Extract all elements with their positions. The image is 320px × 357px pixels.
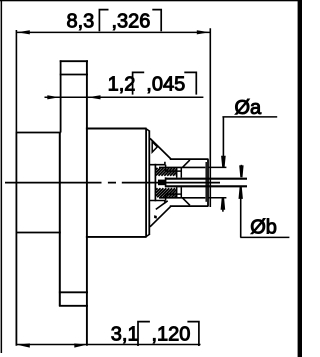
bottom leg bottom edge — [59, 305, 88, 307]
dia a leader underline — [222, 116, 277, 118]
frame left border — [1, 0, 2, 353]
insulator hatch upper — [156, 168, 177, 176]
interface front inner face — [205, 162, 207, 202]
frame top border — [0, 0, 302, 1]
body right edge — [145, 129, 147, 237]
dia a arrow bottom stub — [222, 209, 224, 212]
cone wall section triangle lower — [154, 215, 157, 218]
bore chamfer bottom — [182, 198, 190, 206]
top leg tube top edge — [60, 60, 88, 62]
interface front face — [207, 159, 209, 206]
dim 8,3 extension line left — [15, 30, 17, 132]
dim 3,1 dimension line — [16, 344, 200, 346]
dim 8,3 arrow right — [197, 30, 210, 34]
dim 8,3 arrow left — [17, 30, 30, 34]
dia a arrow bottom — [221, 198, 226, 210]
svg-text:1,2: 1,2 — [108, 74, 136, 96]
cone wall section triangle upper — [152, 142, 157, 153]
dia b arrow bottom — [239, 187, 243, 199]
center pin left cap — [165, 177, 167, 187]
flange left edge — [15, 132, 17, 346]
insulator hatch lower — [156, 188, 177, 197]
svg-text:8,3: 8,3 — [67, 10, 95, 32]
body chamfer top right — [146, 129, 150, 132]
interface bottom edge — [170, 205, 209, 207]
svg-text:Øb: Øb — [250, 216, 277, 238]
socket wall v4 top — [180, 167, 182, 177]
socket sleeve left wall bottom — [165, 194, 167, 201]
dim 3,1 inch bracket right — [187, 322, 199, 346]
interface top edge — [170, 158, 209, 160]
top leg tube right edge — [86, 60, 88, 345]
svg-text:Øa: Øa — [235, 97, 263, 119]
dim 1,2 inch bracket left — [133, 72, 145, 94]
flange right edge — [59, 133, 61, 306]
socket wall v3 top — [176, 167, 178, 177]
socket sleeve bottom line — [165, 193, 181, 195]
dia b arrow top — [239, 165, 243, 177]
socket wall v3 bottom — [176, 187, 178, 198]
cone top edge — [150, 138, 171, 159]
bore chamfer top — [182, 160, 190, 168]
frame right border — [298, 0, 302, 357]
center pin bottom edge — [165, 185, 247, 187]
svg-text:3,1: 3,1 — [111, 323, 139, 345]
socket bottom line — [150, 201, 165, 204]
dim 1,2 arrow right — [88, 95, 101, 99]
bore top edge — [159, 166, 205, 168]
center pin top edge — [165, 178, 247, 180]
dim 3,1 arrow left — [17, 343, 30, 347]
svg-text:,120: ,120 — [152, 323, 191, 345]
dia a extension line bottom — [209, 197, 227, 199]
socket left wall — [154, 164, 156, 202]
inner cone edge lower — [156, 201, 168, 210]
dia b leader underline — [240, 236, 289, 238]
socket sleeve top line — [165, 170, 181, 172]
top leg tube inner line — [60, 74, 88, 76]
dim 1,2 inch bracket right — [184, 72, 196, 94]
dia a leader vertical — [222, 117, 224, 157]
dim 8,3 dimension line — [16, 31, 210, 33]
body chamfer bottom right — [146, 234, 150, 237]
dia b arrow top stub — [240, 165, 242, 168]
cone bottom edge — [150, 206, 171, 227]
bottom leg inner line — [59, 291, 88, 293]
socket wall v4 bottom — [180, 187, 182, 198]
flange bottom edge — [16, 232, 61, 234]
centerline — [5, 182, 220, 184]
center pin press-fit block — [158, 180, 165, 186]
dim 1,2 arrow left — [47, 95, 59, 99]
top leg tube left edge — [60, 60, 62, 132]
dim 8,3 extension line right — [209, 28, 211, 207]
socket top line — [150, 162, 165, 165]
svg-text:,326: ,326 — [112, 10, 151, 32]
svg-text:,045: ,045 — [146, 74, 185, 96]
dim 8,3 inch bracket left — [99, 10, 108, 32]
bore bottom edge — [159, 197, 205, 199]
dim 3,1 arrow right — [74, 343, 86, 347]
flange top edge — [16, 132, 61, 134]
body cone base edge — [148, 131, 150, 235]
dim 1,2 dimension line — [45, 96, 204, 98]
dia b leader vertical — [240, 188, 242, 238]
dia a arrow top — [221, 156, 226, 168]
dia a extension line top — [209, 166, 227, 168]
dim 3,1 inch bracket left — [138, 322, 150, 346]
socket sleeve left wall top — [165, 165, 167, 172]
dim 8,3 inch bracket right — [152, 10, 161, 32]
body bottom edge — [86, 236, 147, 238]
body top edge — [86, 128, 147, 130]
